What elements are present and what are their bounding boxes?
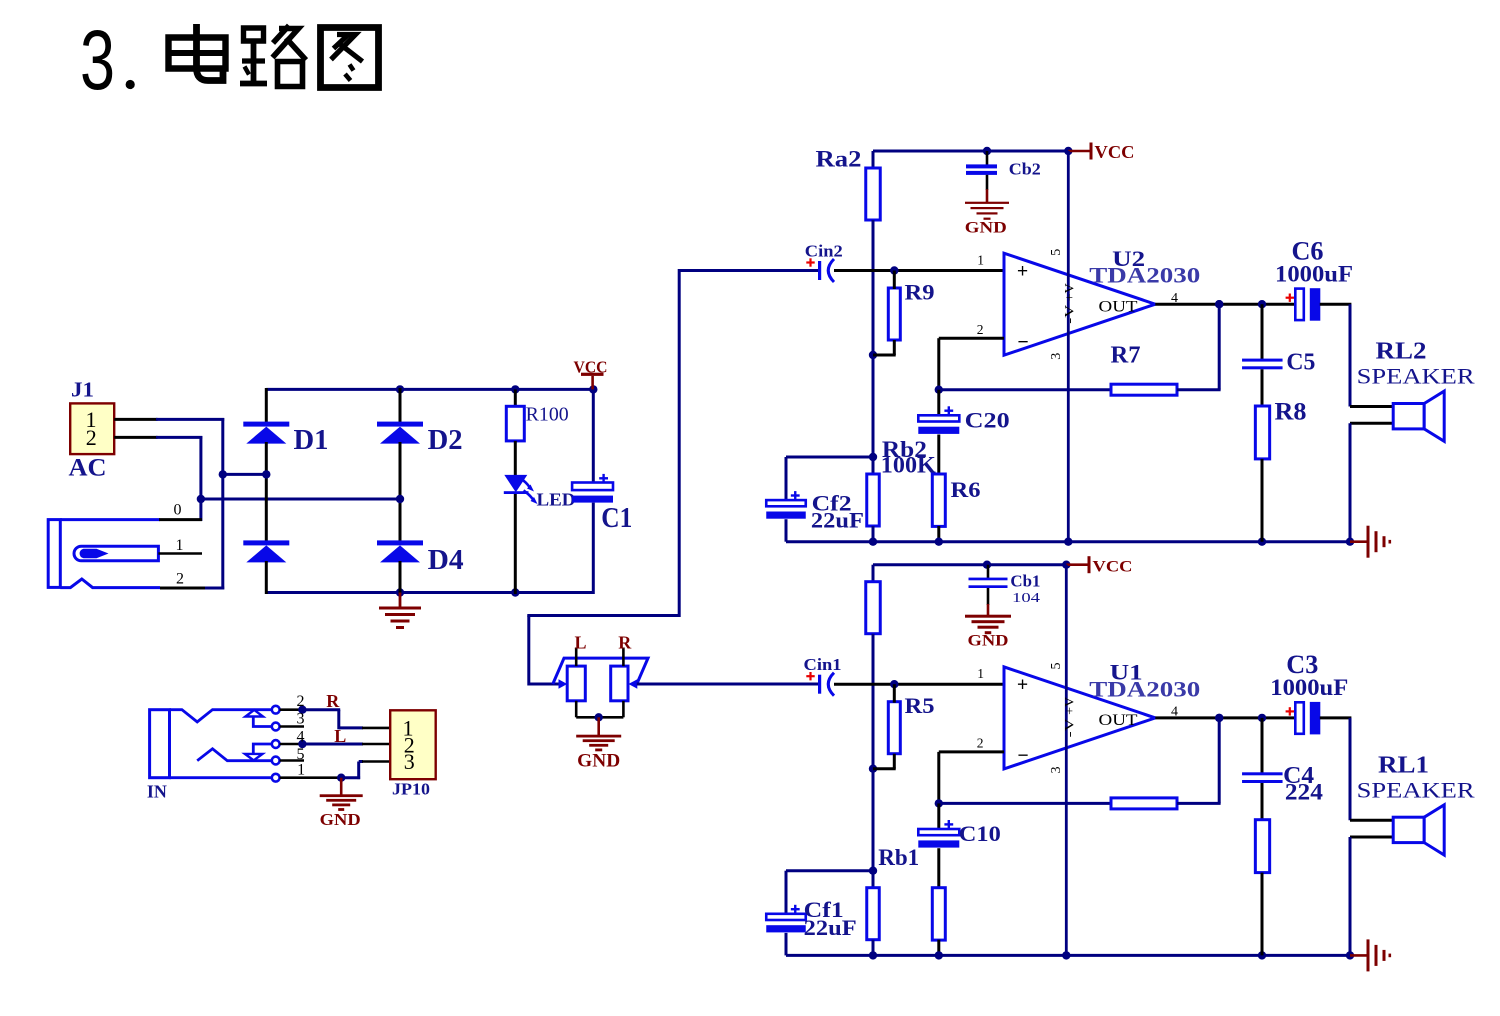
svg-text:L: L	[575, 633, 587, 653]
svg-text:1: 1	[977, 253, 984, 268]
svg-text:TDA2030: TDA2030	[1089, 263, 1200, 288]
svg-text:GND: GND	[577, 751, 620, 772]
svg-text:+: +	[1017, 261, 1028, 282]
svg-text:1: 1	[176, 537, 184, 554]
svg-text:R6: R6	[951, 477, 981, 502]
svg-text:100K: 100K	[881, 453, 936, 478]
svg-text:1: 1	[977, 666, 984, 681]
svg-text:SPEAKER: SPEAKER	[1357, 777, 1475, 802]
svg-text:5: 5	[297, 746, 305, 763]
svg-text:2: 2	[297, 693, 305, 710]
svg-text:RL1: RL1	[1378, 752, 1429, 778]
svg-text:R5: R5	[905, 693, 935, 718]
svg-text:R9: R9	[905, 280, 935, 305]
svg-text:IN: IN	[147, 782, 167, 802]
svg-text:104: 104	[1012, 591, 1040, 606]
svg-text:C1: C1	[601, 503, 632, 534]
svg-text:L: L	[334, 726, 346, 746]
svg-text:RL2: RL2	[1376, 339, 1427, 365]
svg-text:Cb1: Cb1	[1010, 572, 1040, 591]
svg-text:224: 224	[1285, 780, 1324, 805]
svg-text:3: 3	[1049, 353, 1064, 360]
svg-text:D4: D4	[428, 545, 464, 576]
svg-text:Ra2: Ra2	[816, 147, 862, 172]
svg-text:R: R	[618, 633, 632, 653]
svg-text:GND: GND	[968, 633, 1009, 650]
svg-text:2: 2	[977, 736, 984, 751]
svg-text:22uF: 22uF	[804, 915, 857, 940]
svg-text:D2: D2	[428, 425, 463, 456]
svg-text:AC: AC	[69, 455, 107, 482]
svg-text:GND: GND	[320, 810, 361, 829]
svg-text:4: 4	[1171, 291, 1178, 306]
svg-text:5: 5	[1049, 249, 1064, 256]
svg-text:2: 2	[86, 425, 97, 450]
svg-text:−: −	[1018, 332, 1029, 353]
svg-text:2: 2	[977, 322, 984, 337]
svg-text:R: R	[326, 691, 340, 711]
svg-text:−: −	[1018, 746, 1029, 767]
svg-text:TDA2030: TDA2030	[1089, 676, 1200, 701]
svg-text:3: 3	[80, 13, 115, 107]
svg-text:4: 4	[297, 729, 305, 746]
svg-text:D1: D1	[294, 425, 329, 456]
svg-text:JP10: JP10	[392, 780, 430, 799]
svg-text:SPEAKER: SPEAKER	[1357, 364, 1475, 389]
svg-text:5: 5	[1049, 663, 1064, 670]
svg-text:2: 2	[176, 571, 184, 588]
svg-text:J1: J1	[71, 378, 94, 402]
svg-text:-V: -V	[1061, 304, 1076, 324]
svg-text:OUT: OUT	[1099, 299, 1138, 316]
svg-text:-V: -V	[1061, 718, 1076, 738]
svg-text:R7: R7	[1111, 343, 1141, 369]
svg-text:LED: LED	[537, 490, 576, 510]
svg-text:VCC: VCC	[1093, 559, 1133, 576]
svg-text:R8: R8	[1275, 396, 1307, 425]
svg-text:22uF: 22uF	[811, 508, 864, 533]
svg-text:C5: C5	[1286, 350, 1315, 376]
svg-text:+V: +V	[1061, 696, 1076, 715]
svg-text:1: 1	[297, 762, 305, 779]
svg-text:3: 3	[404, 749, 415, 774]
svg-text:Rb1: Rb1	[878, 845, 919, 870]
svg-text:0: 0	[174, 502, 182, 519]
svg-text:3: 3	[1049, 767, 1064, 774]
svg-text:3: 3	[297, 711, 305, 728]
svg-text:C10: C10	[959, 821, 1001, 846]
svg-text:VCC: VCC	[1095, 142, 1135, 162]
svg-text:Cin1: Cin1	[804, 655, 842, 674]
svg-text:Cb2: Cb2	[1009, 160, 1041, 179]
svg-text:C20: C20	[965, 408, 1010, 433]
svg-text:Cin2: Cin2	[805, 242, 843, 261]
svg-text:+V: +V	[1061, 283, 1076, 302]
svg-text:+: +	[1017, 675, 1028, 696]
svg-text:4: 4	[1171, 705, 1178, 720]
svg-text:R100: R100	[526, 405, 569, 426]
svg-text:1000uF: 1000uF	[1270, 675, 1348, 700]
svg-text:OUT: OUT	[1099, 712, 1138, 729]
svg-text:1000uF: 1000uF	[1275, 262, 1353, 287]
svg-text:GND: GND	[965, 219, 1007, 236]
